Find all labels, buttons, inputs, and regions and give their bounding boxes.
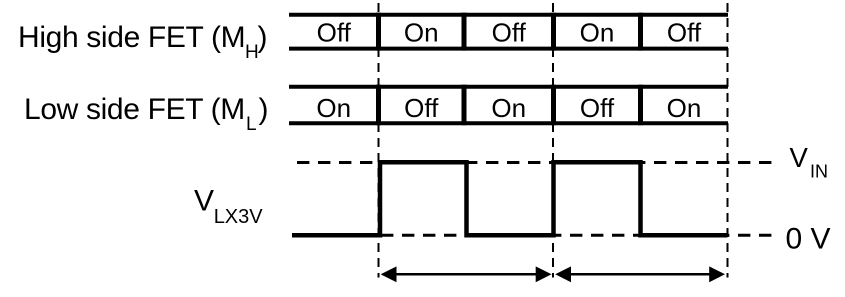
svg-text:On: On <box>667 93 702 123</box>
svg-text:On: On <box>404 18 439 48</box>
svg-text:LX3V: LX3V <box>214 206 264 228</box>
svg-text:On: On <box>491 93 526 123</box>
svg-text:On: On <box>580 18 615 48</box>
node t3 dashed vertical period boundary 3 <box>727 3 729 278</box>
low-side band divider at t1 <box>376 85 381 126</box>
period arrow 2 left arrowhead <box>555 266 571 282</box>
0V reference level dashed line <box>297 234 772 237</box>
svg-text:Off: Off <box>667 18 702 48</box>
svg-text:Low side FET (M: Low side FET (M <box>24 93 245 126</box>
label VLX3V <box>194 184 263 228</box>
svg-text:0 V: 0 V <box>786 223 831 256</box>
svg-text:IN: IN <box>810 162 828 182</box>
label VIN <box>790 142 829 182</box>
high-side band divider mid period 1 <box>462 13 467 51</box>
low-side FET timing band rail bottom <box>289 121 728 125</box>
svg-text:): ) <box>259 93 269 126</box>
node t1 dashed vertical period boundary 1 <box>378 3 380 278</box>
svg-text:): ) <box>258 21 268 54</box>
high-side FET timing band rail top <box>289 13 728 17</box>
low-side band divider mid period 1 <box>462 85 467 126</box>
high-side band divider mid period 2 <box>638 13 643 51</box>
svg-text:On: On <box>316 93 351 123</box>
period arrow 1 right arrowhead <box>536 266 552 282</box>
period arrow 1 left arrowhead <box>381 266 397 282</box>
node t2 dashed vertical period boundary 2 <box>552 3 554 278</box>
low-side band divider mid period 2 <box>638 85 643 126</box>
low-side band divider at t2 <box>551 85 556 126</box>
label High side FET (MH) <box>18 21 268 63</box>
svg-text:Off: Off <box>317 18 352 48</box>
svg-text:Off: Off <box>492 18 527 48</box>
label Low side FET (ML) <box>24 93 269 135</box>
period arrow 2 right arrowhead <box>709 266 725 282</box>
svg-text:L: L <box>246 114 257 135</box>
period arrow 2 shaft <box>567 273 714 276</box>
svg-text:V: V <box>194 184 214 217</box>
low-side FET timing band rail top <box>289 85 728 89</box>
VLX3V switching waveform <box>292 162 728 235</box>
high-side band divider at t2 <box>551 13 556 51</box>
svg-text:V: V <box>790 142 809 173</box>
svg-text:Off: Off <box>580 93 615 123</box>
VIN reference level dashed line <box>297 161 772 164</box>
period arrow 1 shaft <box>392 273 541 276</box>
svg-text:Off: Off <box>404 93 439 123</box>
svg-text:High side FET (M: High side FET (M <box>18 21 245 54</box>
high-side FET timing band rail bottom <box>289 47 728 51</box>
high-side band divider at t1 <box>376 13 381 51</box>
